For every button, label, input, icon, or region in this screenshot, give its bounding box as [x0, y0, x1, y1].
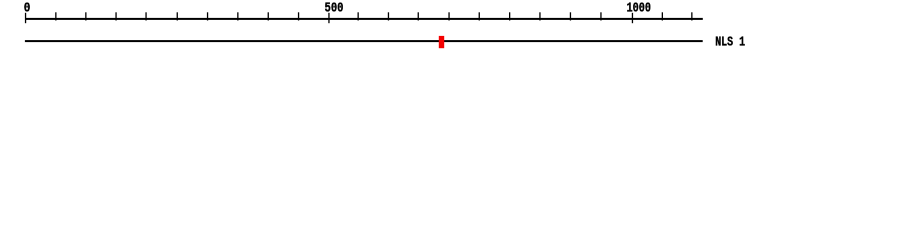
ruler tall tick at 500	[328, 13, 329, 23]
protein sequence line	[25, 40, 703, 42]
svg-text:500: 500	[325, 1, 344, 17]
svg-text:1000: 1000	[627, 1, 652, 17]
svg-text:NLS 1: NLS 1	[715, 35, 745, 51]
ruler short ticks	[55, 12, 692, 20]
background	[0, 0, 900, 58]
NLS 1 red marker	[439, 36, 444, 48]
ruler tall tick at 1000	[632, 13, 633, 23]
ruler axis line	[25, 18, 703, 20]
svg-text:0: 0	[24, 1, 31, 17]
ruler tall tick at 0	[25, 13, 26, 23]
